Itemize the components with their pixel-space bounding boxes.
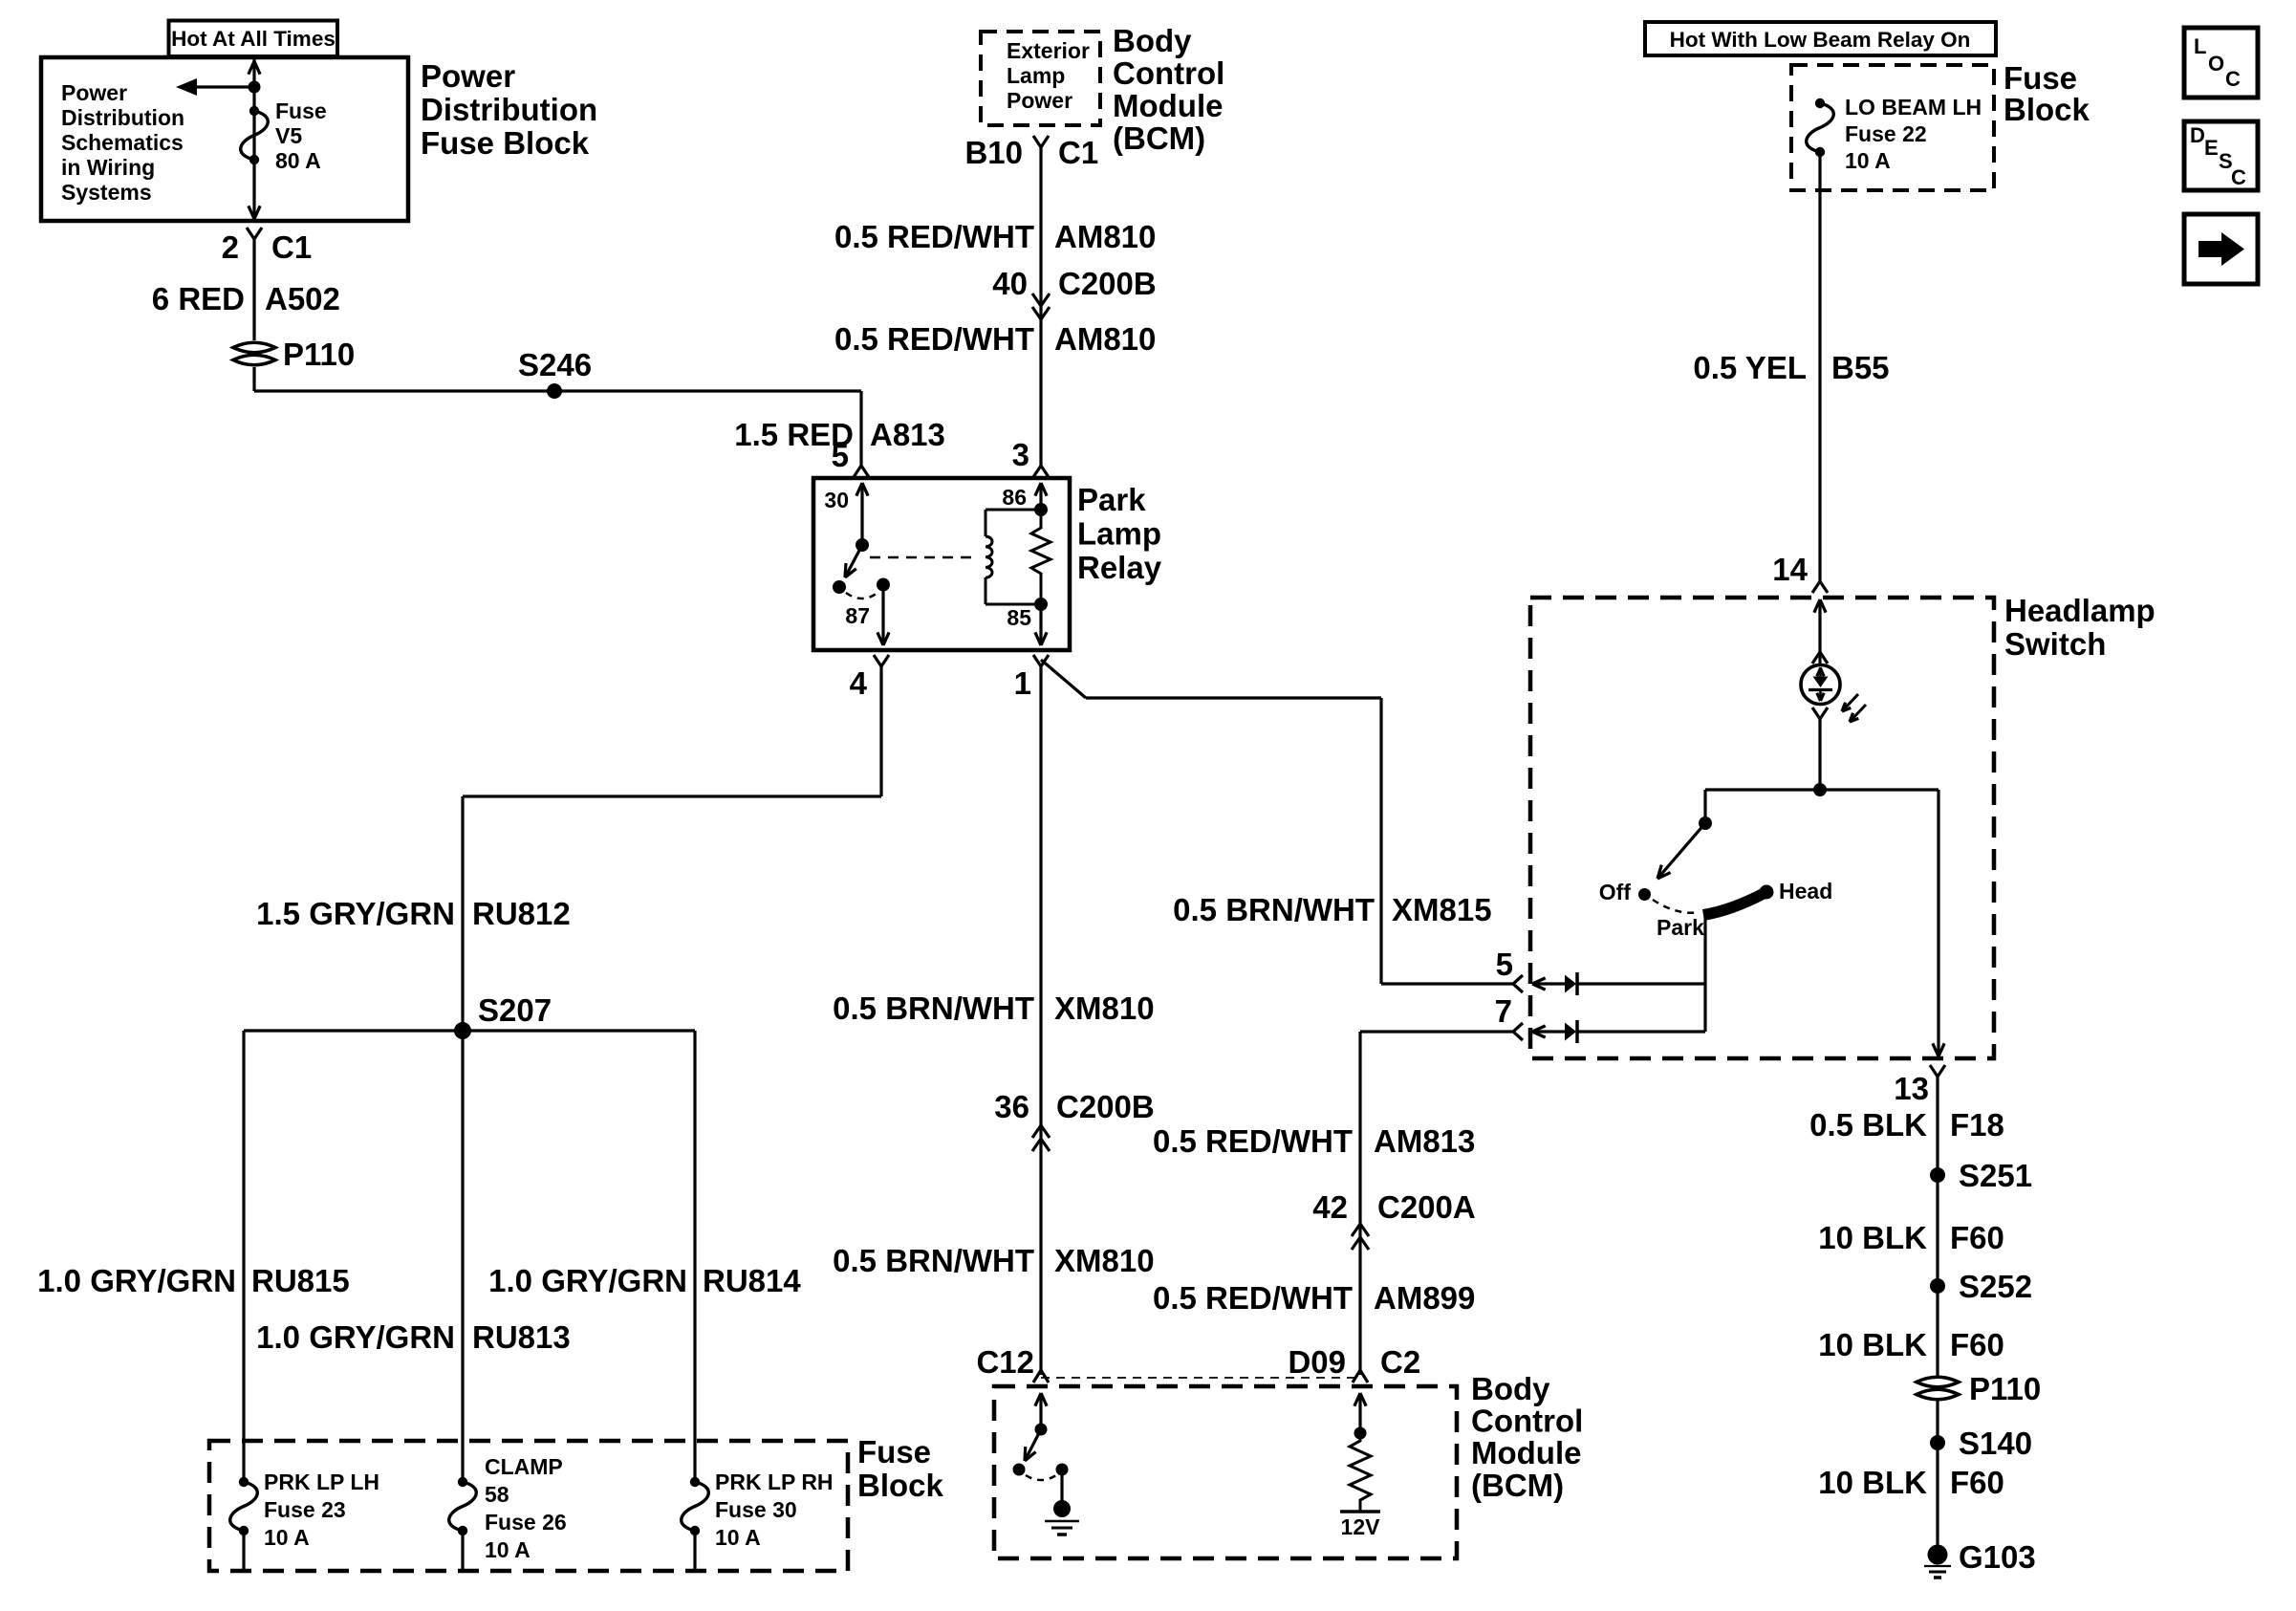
svg-text:CLAMP: CLAMP <box>485 1454 563 1479</box>
svg-text:Fuse 23: Fuse 23 <box>264 1497 346 1522</box>
svg-text:C200B: C200B <box>1058 266 1157 301</box>
svg-text:Module: Module <box>1113 88 1223 123</box>
svg-text:XM810: XM810 <box>1054 1243 1155 1278</box>
svg-text:RU813: RU813 <box>472 1319 571 1355</box>
svg-text:RU815: RU815 <box>251 1263 350 1298</box>
svg-text:(BCM): (BCM) <box>1471 1468 1564 1503</box>
BCM internal ground contact node <box>1056 1464 1069 1476</box>
relay suppression resistor <box>1031 510 1051 604</box>
svg-text:Hot With Low Beam Relay On: Hot With Low Beam Relay On <box>1670 28 1971 52</box>
svg-text:E: E <box>2204 136 2219 160</box>
svg-text:Power: Power <box>421 58 515 94</box>
svg-text:AM810: AM810 <box>1054 219 1156 254</box>
node junction to power distribution schematics <box>249 81 261 94</box>
svg-text:XM815: XM815 <box>1392 892 1492 927</box>
svg-text:B10: B10 <box>964 135 1023 170</box>
svg-text:Fuse: Fuse <box>2004 60 2077 96</box>
svg-text:0.5 BRN/WHT: 0.5 BRN/WHT <box>833 1243 1034 1278</box>
svg-text:Control: Control <box>1471 1404 1583 1439</box>
ground G103 <box>1928 1545 1948 1565</box>
fuse 23 PRK LP LH <box>239 1477 249 1487</box>
svg-text:Park: Park <box>1657 915 1704 940</box>
svg-text:2: 2 <box>222 229 239 265</box>
svg-text:Power: Power <box>61 80 127 105</box>
indicator illumination lamp (LED in circle) <box>1801 665 1840 705</box>
fuse V5 80 A <box>249 106 259 116</box>
relay normally-open contact node <box>833 580 846 594</box>
junction node coil/resistor top <box>1034 503 1048 516</box>
svg-text:O: O <box>2208 52 2224 76</box>
BCM C12 internal terminal arrow <box>1039 1394 1042 1429</box>
svg-text:Systems: Systems <box>61 180 152 205</box>
relay K? Park Lamp Relay box <box>813 478 1070 650</box>
internal ground G (BCM) <box>1053 1500 1071 1517</box>
svg-text:10 BLK: 10 BLK <box>1818 1327 1927 1362</box>
wire fuse V5 feed (pin 2 vertical inside fuse block) <box>252 59 255 219</box>
switch internal junction node <box>1813 783 1827 796</box>
svg-text:12V: 12V <box>1341 1514 1381 1539</box>
wire from P110 to S246 splice <box>252 367 255 391</box>
svg-text:0.5 BLK: 0.5 BLK <box>1809 1107 1927 1143</box>
svg-text:Lamp: Lamp <box>1077 516 1161 552</box>
svg-text:36: 36 <box>994 1089 1029 1124</box>
svg-text:Body: Body <box>1471 1371 1550 1406</box>
svg-text:D09: D09 <box>1288 1344 1346 1380</box>
svg-text:Off: Off <box>1599 880 1632 904</box>
wire indicator to switch junction <box>1818 719 1821 790</box>
connector C1 pin B10 of BCM <box>1033 136 1049 147</box>
svg-text:58: 58 <box>485 1482 509 1507</box>
svg-text:Fuse 22: Fuse 22 <box>1845 121 1927 146</box>
wire F18 (0.5 BLK) from pin 13 <box>1936 1077 1939 1545</box>
BCM Exterior Lamp Power dashed box <box>981 32 1100 125</box>
svg-text:B55: B55 <box>1831 350 1890 385</box>
connector chevron above indicator <box>1812 652 1828 664</box>
relay pin 86 terminal arrow <box>1039 484 1042 510</box>
svg-text:C2: C2 <box>1380 1344 1420 1380</box>
Power Distribution Fuse Block box <box>41 57 408 221</box>
wire RU815 left branch <box>242 1031 245 1482</box>
svg-text:S140: S140 <box>1959 1426 2032 1461</box>
svg-text:D: D <box>2190 123 2205 147</box>
relay coil winding <box>985 510 987 536</box>
BCM internal switch pivot node <box>1035 1424 1048 1436</box>
svg-text:Fuse: Fuse <box>275 98 327 123</box>
svg-text:Fuse 26: Fuse 26 <box>485 1510 567 1535</box>
svg-text:Switch: Switch <box>2004 626 2106 662</box>
svg-text:Headlamp: Headlamp <box>2004 593 2155 628</box>
svg-text:Exterior: Exterior <box>1007 38 1090 63</box>
wire RU813 middle branch <box>461 1031 464 1482</box>
svg-text:F18: F18 <box>1950 1107 2004 1143</box>
svg-text:Head: Head <box>1779 879 1832 903</box>
svg-text:S252: S252 <box>1959 1269 2032 1304</box>
connector boundary dashed line at BCM <box>1041 1377 1360 1379</box>
svg-text:Relay: Relay <box>1077 550 1162 585</box>
svg-text:C: C <box>2225 67 2241 91</box>
svg-text:10 A: 10 A <box>264 1525 310 1550</box>
svg-text:10 A: 10 A <box>485 1537 531 1562</box>
connector C1 pin 2 (fuse block output) <box>247 228 262 239</box>
LOC icon box <box>2184 28 2258 98</box>
svg-text:80 A: 80 A <box>275 148 321 173</box>
svg-text:Schematics: Schematics <box>61 130 184 155</box>
svg-text:RU814: RU814 <box>703 1263 801 1298</box>
internal 12V supply rail <box>1340 1510 1380 1513</box>
wire pin13 internal drop <box>1937 790 1939 1056</box>
svg-text:Module: Module <box>1471 1435 1581 1470</box>
relay pin "4" connector <box>874 655 889 666</box>
grommet P110 (rear) <box>1917 1377 1959 1387</box>
DESC icon box <box>2184 121 2258 190</box>
svg-text:40: 40 <box>992 266 1028 301</box>
svg-text:C200B: C200B <box>1056 1089 1155 1124</box>
relay coil loop bottom wire <box>986 603 1041 606</box>
splice S251 <box>1930 1167 1945 1183</box>
BCM internal pull-up node <box>1354 1427 1367 1440</box>
svg-text:LO BEAM LH: LO BEAM LH <box>1845 95 1982 120</box>
svg-text:C1: C1 <box>271 229 312 265</box>
svg-text:A813: A813 <box>870 417 945 452</box>
svg-text:XM810: XM810 <box>1054 991 1155 1026</box>
svg-text:0.5 RED/WHT: 0.5 RED/WHT <box>1153 1123 1353 1159</box>
wire RU812 (1.5 GRY/GRN) from relay pin 4 <box>879 666 882 796</box>
svg-text:A502: A502 <box>265 281 340 316</box>
wiper travel dashed arc Off-Park <box>1653 900 1700 913</box>
svg-text:S251: S251 <box>1959 1158 2032 1193</box>
svg-text:C12: C12 <box>976 1344 1034 1380</box>
svg-text:S246: S246 <box>518 347 592 382</box>
svg-text:Block: Block <box>857 1468 944 1503</box>
wire from Park contact <box>1703 915 1706 1032</box>
svg-text:4: 4 <box>850 665 868 701</box>
wire AM810 (0.5 RED/WHT) BCM to relay pin 3 <box>1039 147 1042 466</box>
svg-text:42: 42 <box>1312 1189 1348 1225</box>
svg-text:AM899: AM899 <box>1374 1280 1475 1316</box>
svg-text:Park: Park <box>1077 482 1146 517</box>
svg-text:1.0 GRY/GRN: 1.0 GRY/GRN <box>37 1263 236 1298</box>
relay actuation dashed arc <box>846 593 877 599</box>
svg-text:Distribution: Distribution <box>61 105 184 130</box>
fuse block dashed box (top right) <box>1791 65 1994 190</box>
Body Control Module dashed box (bottom) <box>994 1386 1457 1558</box>
svg-text:13: 13 <box>1894 1071 1929 1106</box>
label box "Hot With Low Beam Relay On" <box>1645 22 1996 55</box>
headlamp switch wiper arm <box>1657 823 1705 879</box>
svg-text:C: C <box>2231 165 2246 189</box>
svg-text:Body: Body <box>1113 23 1192 58</box>
arrow icon box <box>2184 214 2258 284</box>
svg-text:30: 30 <box>824 488 849 512</box>
relay pin 87 terminal arrow <box>881 591 884 644</box>
svg-text:10 BLK: 10 BLK <box>1818 1465 1927 1500</box>
svg-text:P110: P110 <box>1969 1371 2041 1406</box>
headlamp switch pin "13" <box>1930 1065 1945 1077</box>
fuse 30 PRK LP RH <box>690 1477 700 1487</box>
splice S252 <box>1930 1278 1945 1294</box>
svg-text:1.0 GRY/GRN: 1.0 GRY/GRN <box>488 1263 687 1298</box>
svg-text:86: 86 <box>1002 485 1027 510</box>
relay switch arm (movable contact) <box>845 545 862 577</box>
svg-text:87: 87 <box>845 603 870 628</box>
wire XM815 branch (diagonal from pin 1) <box>1041 660 1086 698</box>
svg-text:F60: F60 <box>1950 1220 2004 1255</box>
fuse block dashed box (bottom) <box>209 1441 848 1571</box>
grommet P110 <box>233 342 275 353</box>
svg-text:0.5 RED/WHT: 0.5 RED/WHT <box>834 321 1034 357</box>
svg-text:1.0 GRY/GRN: 1.0 GRY/GRN <box>256 1319 455 1355</box>
svg-text:10 A: 10 A <box>1845 148 1891 173</box>
wire AM813 (0.5 RED/WHT) from pin 7 to BCM C2 <box>1360 1030 1513 1033</box>
svg-text:Fuse 30: Fuse 30 <box>715 1497 797 1522</box>
fuse 22 LO BEAM LH <box>1815 98 1825 108</box>
wire RU814 right branch <box>693 1031 696 1482</box>
splice S207 <box>454 1022 471 1039</box>
svg-text:Hot At All Times: Hot At All Times <box>171 27 336 51</box>
wire to internal ground <box>1060 1475 1063 1502</box>
relay common pivot node <box>856 538 869 552</box>
svg-text:L: L <box>2194 34 2206 58</box>
svg-text:1: 1 <box>1014 665 1031 701</box>
diode into headlamp switch pin 5 <box>1532 982 1565 985</box>
svg-text:Lamp: Lamp <box>1007 63 1065 88</box>
svg-text:85: 85 <box>1007 605 1031 630</box>
relay pin "1" connector <box>1033 655 1049 666</box>
svg-text:Control: Control <box>1113 55 1224 91</box>
svg-text:14: 14 <box>1772 552 1808 587</box>
wire B55 (0.5 YEL) fuse 22 to headlamp switch pin 14 <box>1818 152 1821 580</box>
svg-text:PRK LP RH: PRK LP RH <box>715 1469 834 1494</box>
svg-text:P110: P110 <box>283 337 355 372</box>
LED light arrows <box>1842 694 1858 711</box>
relay coil loop top wire <box>986 509 1041 512</box>
svg-text:0.5 BRN/WHT: 0.5 BRN/WHT <box>833 991 1034 1026</box>
svg-text:Block: Block <box>2004 92 2090 127</box>
connector chevron below indicator <box>1812 708 1828 719</box>
arrow to power distribution schematics <box>191 85 254 88</box>
wire XM810 (0.5 BRN/WHT) from relay pin 1 to BCM C12 <box>1039 666 1042 1375</box>
BCM internal switch arm <box>1025 1429 1041 1461</box>
svg-text:10 A: 10 A <box>715 1525 761 1550</box>
splice S246 <box>547 383 562 399</box>
svg-text:0.5 RED/WHT: 0.5 RED/WHT <box>834 219 1034 254</box>
svg-text:0.5 BRN/WHT: 0.5 BRN/WHT <box>1173 892 1375 927</box>
BCM internal switch dashed arc <box>1026 1475 1056 1480</box>
svg-text:F60: F60 <box>1950 1327 2004 1362</box>
splice S140 <box>1930 1435 1945 1450</box>
svg-text:6 RED: 6 RED <box>152 281 245 316</box>
headlamp switch wiper pivot node <box>1699 816 1712 830</box>
diode into headlamp switch pin 7 <box>1532 1030 1565 1033</box>
svg-text:7: 7 <box>1495 993 1512 1029</box>
svg-text:0.5 YEL: 0.5 YEL <box>1693 350 1807 385</box>
svg-text:V5: V5 <box>275 123 302 148</box>
wire A813 (1.5 RED) to relay pin 5 <box>859 391 862 466</box>
svg-text:10 BLK: 10 BLK <box>1818 1220 1927 1255</box>
BCM C2 internal terminal arrow <box>1358 1394 1361 1433</box>
svg-text:in Wiring: in Wiring <box>61 155 155 180</box>
Headlamp Switch dashed box <box>1530 598 1994 1058</box>
svg-text:Fuse: Fuse <box>857 1434 931 1469</box>
svg-text:1.5 GRY/GRN: 1.5 GRY/GRN <box>256 896 455 931</box>
svg-text:G103: G103 <box>1959 1539 2036 1575</box>
svg-text:F60: F60 <box>1950 1465 2004 1500</box>
BCM internal pull-up resistor <box>1350 1433 1371 1511</box>
svg-text:5: 5 <box>832 438 849 473</box>
Off position contact node <box>1638 888 1651 901</box>
svg-text:PRK LP LH: PRK LP LH <box>264 1469 379 1494</box>
internal wire to wiper and pin 13 <box>1705 788 1939 791</box>
svg-text:AM813: AM813 <box>1374 1123 1475 1159</box>
junction node coil/resistor bottom <box>1034 598 1048 611</box>
svg-text:Distribution: Distribution <box>421 92 597 127</box>
svg-text:AM810: AM810 <box>1054 321 1156 357</box>
wiper blade arc (Park-Head) <box>1703 893 1765 915</box>
svg-text:C200A: C200A <box>1377 1189 1476 1225</box>
svg-text:5: 5 <box>1496 947 1513 982</box>
wire A502 (6 RED) <box>252 239 255 340</box>
svg-text:Fuse Block: Fuse Block <box>421 125 590 161</box>
svg-text:S207: S207 <box>478 992 552 1028</box>
svg-text:Power: Power <box>1007 88 1072 113</box>
svg-text:0.5 RED/WHT: 0.5 RED/WHT <box>1153 1280 1353 1316</box>
wiper feed drop <box>1703 790 1706 823</box>
fuse 26 CLAMP 58 <box>458 1477 467 1487</box>
svg-text:C1: C1 <box>1058 135 1098 170</box>
relay pin 85 terminal arrow <box>1039 604 1042 644</box>
relay pin 87 contact node <box>877 578 890 592</box>
label box "Hot At All Times" <box>169 21 338 57</box>
wire branch from S207 (horizontal) <box>244 1029 695 1032</box>
relay coil mechanical link (dashed) <box>870 556 971 559</box>
BCM internal switch contact node <box>1013 1464 1026 1476</box>
svg-text:RU812: RU812 <box>472 896 571 931</box>
relay pin 30 terminal arrow <box>860 484 863 545</box>
svg-text:3: 3 <box>1012 437 1029 472</box>
svg-text:(BCM): (BCM) <box>1113 120 1205 156</box>
headlamp switch pin 14 internal terminal arrow <box>1818 600 1821 652</box>
